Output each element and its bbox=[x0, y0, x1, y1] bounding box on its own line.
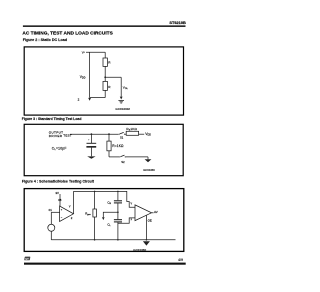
svg-text:GC01350: GC01350 bbox=[143, 168, 155, 172]
svg-text:CB: CB bbox=[107, 200, 111, 205]
svg-text:R=1KΩ: R=1KΩ bbox=[112, 144, 124, 148]
svg-text:2: 2 bbox=[71, 216, 73, 220]
svg-text:Figure 3 : Standard Timing Tes: Figure 3 : Standard Timing Test Load bbox=[22, 117, 82, 121]
svg-text:CL=10pF: CL=10pF bbox=[52, 147, 67, 152]
svg-text:Figure 4 : Schematic/Noise Tes: Figure 4 : Schematic/Noise Testing Circu… bbox=[22, 179, 95, 183]
svg-text:Rgen: Rgen bbox=[85, 211, 91, 216]
svg-text:Figure 2 : Static DC Load: Figure 2 : Static DC Load bbox=[23, 38, 68, 42]
svg-text:DRIVER: DRIVER bbox=[49, 134, 63, 138]
svg-text:4/9: 4/9 bbox=[178, 258, 183, 262]
svg-text:AV: AV bbox=[154, 210, 158, 214]
svg-text:01: 01 bbox=[49, 208, 53, 212]
svg-text:AC TIMING, TEST AND LOAD CIRCU: AC TIMING, TEST AND LOAD CIRCUITS bbox=[22, 31, 113, 37]
svg-text:S1: S1 bbox=[120, 135, 124, 139]
svg-text:S2: S2 bbox=[121, 160, 125, 164]
svg-text:R: R bbox=[108, 61, 111, 65]
svg-text:V+: V+ bbox=[82, 50, 86, 54]
svg-text:VDD: VDD bbox=[80, 75, 86, 80]
svg-text:GC01360: GC01360 bbox=[133, 248, 146, 252]
svg-text:VOL: VOL bbox=[123, 86, 129, 91]
svg-text:ST6210B: ST6210B bbox=[169, 20, 186, 25]
svg-text:2: 2 bbox=[78, 98, 80, 102]
svg-text:RS1KΩ: RS1KΩ bbox=[126, 127, 137, 132]
svg-text:08: 08 bbox=[58, 198, 62, 202]
svg-text:3V: 3V bbox=[55, 191, 59, 195]
svg-text:OE: OE bbox=[148, 219, 152, 223]
svg-text:R: R bbox=[108, 85, 111, 89]
svg-text:ST: ST bbox=[25, 257, 29, 261]
svg-text:CL: CL bbox=[107, 223, 111, 228]
svg-text:GC013402: GC013402 bbox=[115, 107, 130, 111]
svg-text:Y: Y bbox=[130, 201, 132, 205]
svg-text:VDD: VDD bbox=[145, 132, 151, 137]
svg-text:+: + bbox=[88, 139, 90, 142]
svg-text:Y: Y bbox=[69, 204, 71, 208]
